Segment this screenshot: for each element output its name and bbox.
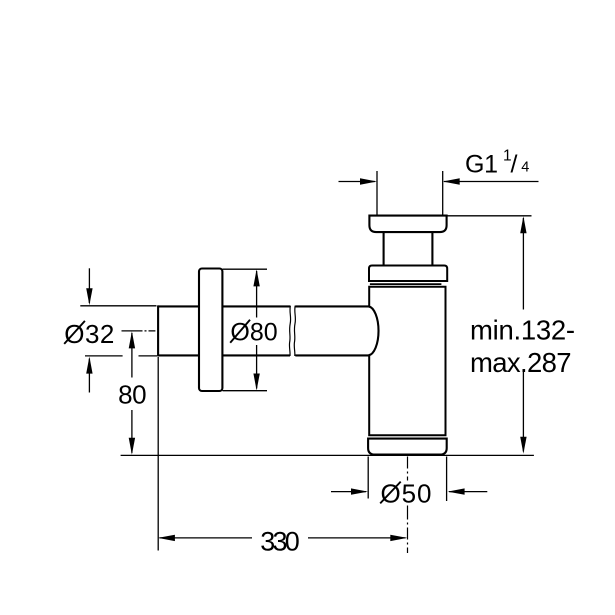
extension line at trap bottom (long horizontal) bbox=[121, 454, 534, 456]
dimension min.132-max.287: vertical line with arrows bbox=[520, 216, 526, 453]
label O50 bbox=[380, 478, 431, 508]
dimension 330: line with arrows bbox=[158, 535, 407, 541]
dimension O32: upper arrow (outside, pointing down) bbox=[86, 268, 92, 305]
dimension G1 1/4: right arrow bbox=[443, 178, 539, 184]
dimension O80: top extension line bbox=[223, 268, 268, 270]
trap bottom cap bbox=[368, 439, 447, 455]
svg-text:80: 80 bbox=[118, 380, 147, 410]
trap body cylinder bbox=[369, 287, 445, 435]
dimension O32: bottom extension line bbox=[85, 355, 157, 357]
dimension G1 1/4: left arrow bbox=[339, 178, 378, 184]
pipe centerline dash-dot bbox=[122, 330, 156, 332]
svg-text:/: / bbox=[511, 151, 518, 179]
trap upper cap bbox=[369, 266, 447, 282]
dimension O50: left arrow bbox=[331, 488, 368, 494]
dimension G1 1/4: right extension line bbox=[442, 171, 444, 216]
pipe dome end at trap body bbox=[369, 306, 379, 355]
dimension O50: left extension line bbox=[367, 457, 369, 499]
svg-text:4: 4 bbox=[521, 160, 529, 176]
dimension O80: vertical line with arrows bbox=[253, 269, 259, 390]
extension line from flange top to right dimension bbox=[444, 215, 532, 217]
bottom centerline dash-dot bbox=[407, 457, 409, 554]
svg-text:O80: O80 bbox=[230, 319, 277, 347]
svg-text:max.287: max.287 bbox=[470, 347, 572, 378]
wall flange on inlet pipe bbox=[199, 269, 222, 392]
svg-text:O50: O50 bbox=[381, 478, 432, 508]
dimension O50: right arrow bbox=[448, 488, 488, 494]
label min.132-max.287 bbox=[470, 315, 575, 378]
dimension G1 1/4: left extension line bbox=[376, 171, 378, 216]
label O32 bbox=[64, 319, 114, 349]
svg-text:G1: G1 bbox=[465, 151, 498, 179]
dimension O80: bottom extension line bbox=[223, 390, 268, 392]
dimension O32: lower arrow (outside, pointing up) bbox=[86, 357, 92, 393]
inlet pipe left end edge bbox=[157, 305, 159, 356]
label G1 1/4 bbox=[465, 148, 529, 179]
svg-text:min.132-: min.132- bbox=[470, 315, 575, 346]
wire: inlet pipe top edge bbox=[158, 305, 369, 307]
wire: inlet pipe bottom edge bbox=[158, 354, 369, 356]
svg-text:O32: O32 bbox=[64, 319, 114, 349]
body/cap separator thick line bbox=[370, 283, 442, 285]
dimension O50: right extension line bbox=[446, 457, 448, 502]
top flange (nut) bbox=[369, 216, 446, 233]
dimension O32: top extension line bbox=[80, 305, 156, 307]
svg-text:330: 330 bbox=[260, 526, 300, 556]
dimension 80: vertical line with arrows bbox=[129, 331, 135, 454]
dimension 330: left extension line bbox=[157, 357, 159, 551]
pipe break symbol wavy lines bbox=[289, 306, 295, 356]
label O80 bbox=[230, 319, 277, 347]
threaded neck bbox=[384, 232, 433, 265]
